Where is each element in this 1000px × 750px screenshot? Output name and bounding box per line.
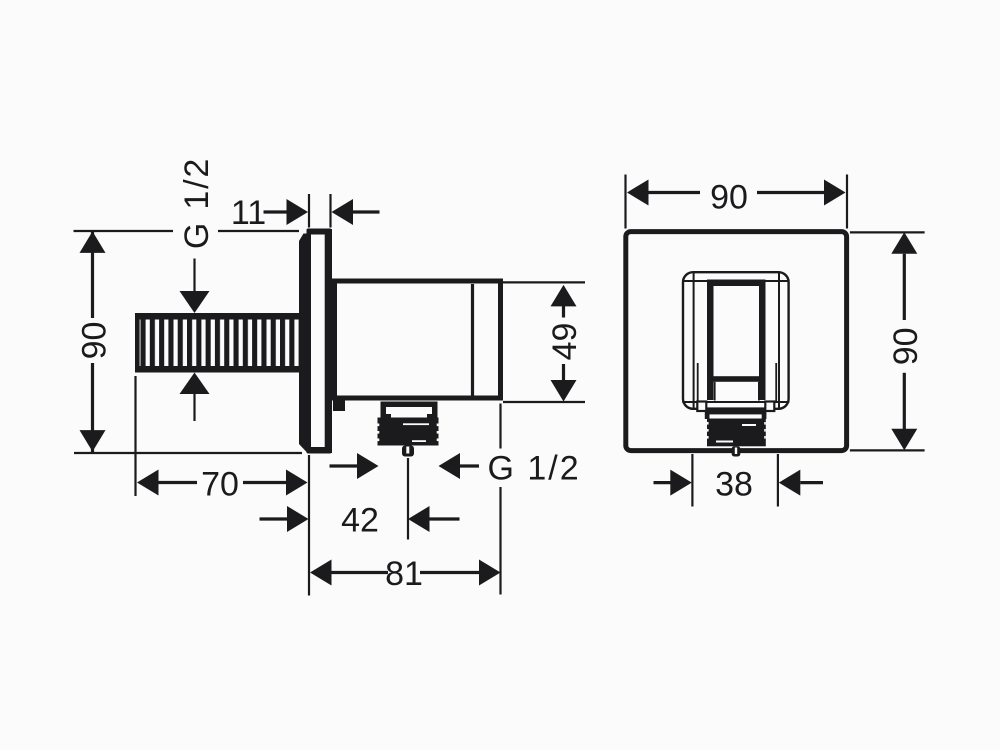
dim 11 extension lines — [308, 194, 310, 228]
svg-text:81: 81 — [385, 555, 423, 593]
body (side view) — [335, 281, 501, 398]
body bottom-left foot — [333, 400, 345, 411]
outlet thread (front view) — [707, 419, 766, 447]
dim 81 arrows and lines — [310, 560, 332, 586]
dim 38 arrows and lines — [654, 481, 671, 484]
plate bottom extension line — [74, 452, 302, 454]
dim 90 right extension lines — [850, 231, 925, 233]
dim 70 arrows and lines — [137, 470, 159, 496]
dim 81 extension line left — [308, 455, 310, 596]
holder bracket (front view) — [707, 280, 766, 401]
outlet thread (side view) — [378, 418, 439, 446]
svg-text:49: 49 — [546, 323, 584, 361]
leader line G1/2 top — [193, 259, 195, 293]
dim 49 arrows — [551, 285, 577, 307]
leader line G1/2 lower — [193, 394, 195, 421]
holder cup outer (front view) — [683, 272, 789, 409]
svg-text:11: 11 — [231, 194, 266, 232]
svg-text:38: 38 — [715, 466, 753, 504]
label G 1/2 bottom row arrows — [330, 464, 358, 467]
plate top extension line — [74, 230, 174, 232]
outlet nipple (front view) — [732, 446, 741, 456]
outlet collar (side view) — [381, 402, 438, 418]
dim 11 lines and arrows — [264, 210, 288, 213]
dim 49 extension lines — [502, 281, 585, 283]
cup lower recess lines — [697, 363, 699, 401]
svg-text:90: 90 — [887, 327, 925, 365]
cup inner edge lines — [693, 272, 695, 410]
outlet collar (front view) — [697, 402, 774, 420]
square escutcheon (front view) — [626, 232, 847, 451]
dim 49 line — [562, 306, 565, 318]
arrow down to pipe top — [180, 291, 210, 313]
dim 90 top arrows and lines — [627, 180, 649, 206]
body cap joint line — [471, 284, 474, 396]
outlet center line — [407, 458, 409, 540]
dim 90 left line — [91, 231, 94, 318]
dim 90 right arrows and lines — [891, 232, 917, 254]
dim 90 top extension lines — [624, 175, 626, 229]
dim 38 extension lines — [691, 454, 693, 507]
svg-text:90: 90 — [76, 322, 114, 360]
arrow up to pipe bottom — [180, 373, 210, 395]
svg-text:70: 70 — [201, 466, 239, 504]
svg-text:G 1/2: G 1/2 — [488, 450, 581, 488]
threaded supply pipe (hatched rod, side view) — [135, 313, 301, 373]
svg-text:90: 90 — [710, 179, 748, 217]
dim 81 extension line right — [499, 404, 501, 449]
dim 70 extension line left — [134, 376, 136, 496]
svg-text:42: 42 — [341, 502, 379, 540]
dim 42 arrows and lines — [260, 517, 288, 520]
wall plate escutcheon (side view) — [299, 229, 332, 454]
svg-text:G 1/2: G 1/2 — [178, 157, 216, 249]
outlet nipple (side view) — [402, 446, 414, 457]
dim 90 left arrows — [80, 231, 106, 253]
